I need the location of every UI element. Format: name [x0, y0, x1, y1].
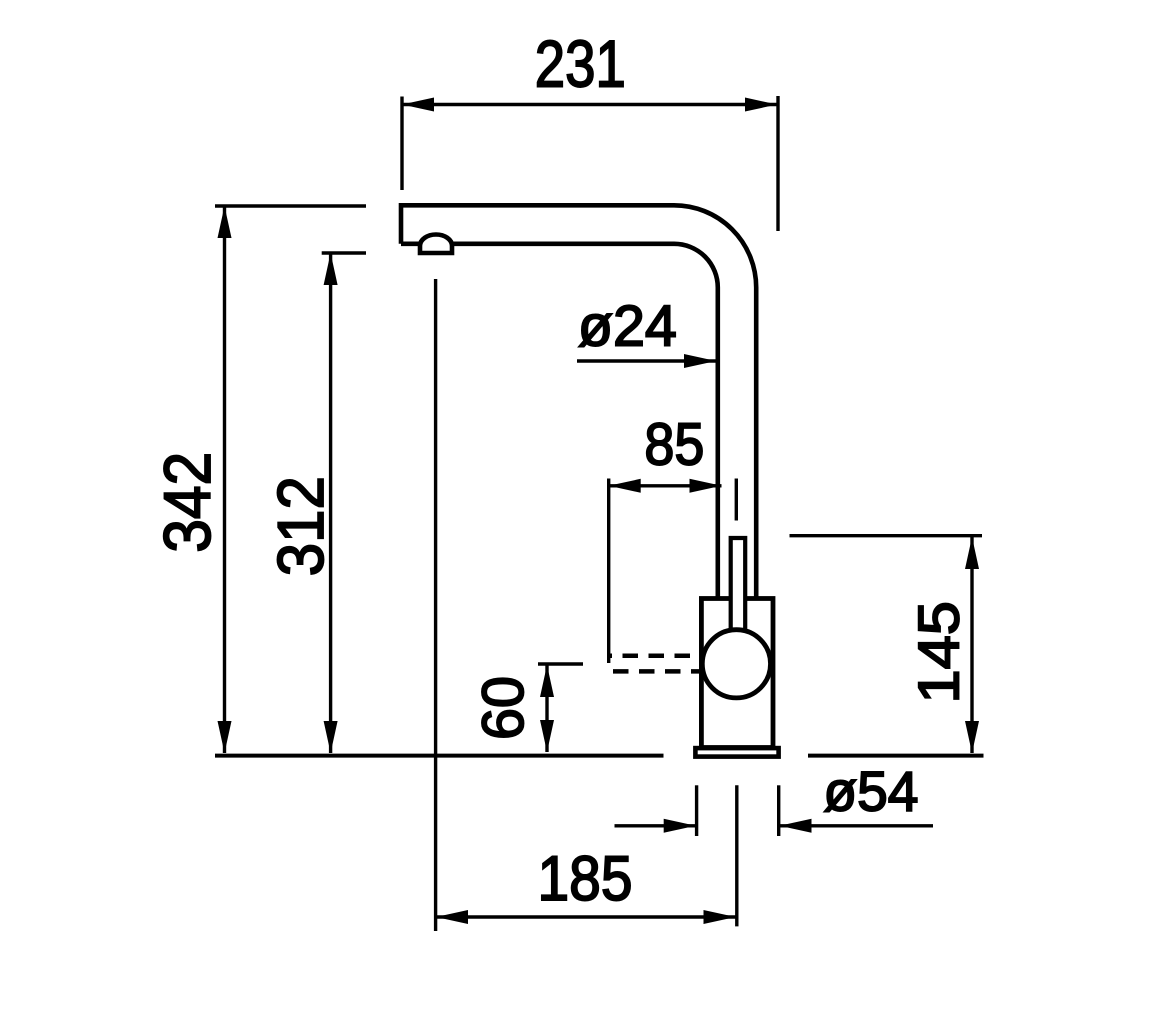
dimension line [436, 915, 736, 918]
dashed hose lines [607, 656, 705, 672]
svg-text:60: 60 [471, 676, 536, 740]
arrowhead 185 left [436, 910, 468, 924]
arrowhead 231 left [402, 98, 434, 112]
dimension line [402, 103, 777, 106]
arrowhead 342 bottom [218, 721, 232, 753]
dimension line [970, 537, 973, 753]
extension line left (spout tip centerline) [434, 279, 437, 931]
extension line right [777, 785, 780, 836]
dimension line [545, 665, 548, 752]
svg-text:145: 145 [907, 601, 971, 704]
faucet spout outline (top tube with bend) [401, 205, 756, 598]
arrowhead 60 bottom [540, 720, 554, 752]
arrowhead 145 top [965, 537, 979, 569]
extension tick top [215, 204, 366, 207]
svg-text:ø24: ø24 [578, 295, 677, 359]
faucet body [701, 599, 773, 748]
arrowhead 231 right [745, 98, 777, 112]
arrowhead 85 left [609, 479, 641, 493]
svg-text:85: 85 [644, 411, 704, 478]
extension line right [776, 96, 779, 231]
dimension line [609, 484, 722, 487]
arrowhead 145 bottom [965, 721, 979, 753]
dimension line right part [780, 824, 934, 827]
extension line left [400, 97, 403, 191]
svg-text:342: 342 [150, 452, 224, 553]
extension tick top [322, 251, 366, 254]
extension line top [790, 534, 983, 537]
arrowhead 185 right [704, 910, 736, 924]
dimension line [223, 206, 226, 753]
lever ball circle [702, 630, 770, 698]
svg-text:312: 312 [264, 476, 337, 576]
arrowhead 342 top [218, 206, 232, 238]
extension line left [695, 785, 698, 836]
arrowhead 312 bottom [324, 721, 338, 753]
dimension line [329, 253, 332, 753]
arrowhead 85 right [690, 479, 722, 493]
arrowhead ø24 [684, 354, 716, 368]
svg-text:231: 231 [535, 28, 626, 101]
arrowhead 312 top [324, 253, 338, 285]
arrowhead ø54 left [664, 819, 696, 833]
extension line center (shared with 185) [735, 785, 738, 926]
svg-text:185: 185 [538, 844, 633, 914]
extension tick top [538, 662, 583, 665]
arrowhead ø54 right [780, 819, 812, 833]
arrowhead 60 top [540, 665, 554, 697]
extension line right (inside pipe) [735, 479, 738, 521]
dimension line left part [615, 824, 696, 827]
svg-text:ø54: ø54 [823, 760, 918, 823]
aerator at spout tip [420, 235, 452, 254]
base plate [695, 748, 778, 757]
extension line left [607, 479, 610, 664]
handle lever [731, 538, 746, 645]
